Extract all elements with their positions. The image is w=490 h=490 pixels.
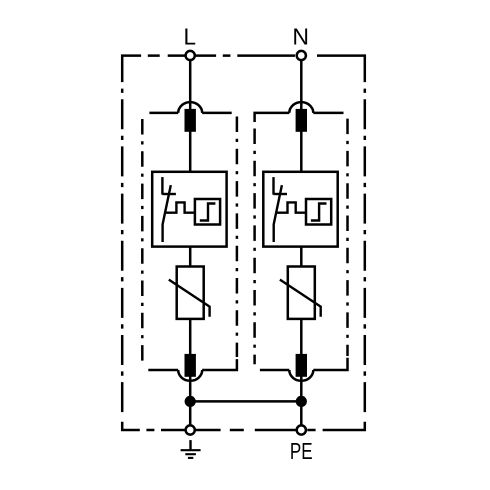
status indicator window (N branch) <box>306 199 331 225</box>
module enclosure (L branch): top edge <box>149 112 231 115</box>
disconnector with status indicator box (L branch) <box>152 172 226 247</box>
device outline: top edge with corner <box>122 56 365 83</box>
module enclosure (N branch): bottom edge <box>260 358 348 370</box>
varistor body (L branch) <box>177 267 204 319</box>
svg-text:N: N <box>292 24 309 50</box>
indicator step symbol (L branch) <box>200 204 216 221</box>
module enclosure (L branch): left edge <box>141 119 144 364</box>
thermal disconnector contact block bottom (N branch) <box>296 354 307 377</box>
wire: L junction to ground terminal <box>189 401 192 430</box>
varistor diagonal stroke (L branch) <box>169 280 210 317</box>
terminal ground (left bottom) <box>186 425 195 434</box>
module enclosure (N branch): right edge <box>346 119 349 356</box>
varistor body (N branch) <box>288 267 315 319</box>
wire: fuse block to PE junction (L branch) <box>189 377 192 402</box>
status indicator window (L branch) <box>195 199 220 225</box>
enclosure bushing arc top (N branch) <box>289 102 313 113</box>
enclosure bushing arc bottom (L branch) <box>178 370 202 381</box>
enclosure bushing arc top (L branch) <box>178 102 202 113</box>
wire: disconnector to varistor (N branch) <box>300 246 303 267</box>
module enclosure (N branch): top edge <box>255 113 344 122</box>
indicator step symbol (N branch) <box>311 204 327 221</box>
terminal N <box>297 51 306 60</box>
wire: varistor to lower fuse block (L branch) <box>189 319 192 355</box>
device outline: left edge <box>121 89 124 413</box>
wire: varistor to lower fuse block (N branch) <box>300 319 303 355</box>
switch blade (N branch) <box>274 185 282 242</box>
varistor diagonal stroke (N branch) <box>280 280 321 317</box>
switch blade (L branch) <box>163 185 171 242</box>
ground symbol <box>181 440 201 458</box>
switch fixed contact lead (L branch) <box>161 177 163 195</box>
terminal PE (right bottom) <box>297 425 306 434</box>
disconnector with status indicator box (N branch) <box>263 172 337 247</box>
thermal disconnector contact block bottom (L branch) <box>185 354 196 377</box>
device outline: right edge <box>364 89 367 413</box>
wire: fuse block to disconnector box (N branch) <box>300 131 303 173</box>
device outline: bottom edge with corners <box>122 422 365 430</box>
junction node (N branch to PE rail) <box>296 396 307 407</box>
switch contact bar (L branch) <box>162 193 176 195</box>
wire: N terminal to disconnector fuse <box>300 60 303 111</box>
thermal disconnector contact block top (L branch) <box>185 109 196 132</box>
wire: PE rail between junctions <box>190 400 301 403</box>
enclosure bushing arc bottom (N branch) <box>289 370 313 381</box>
wire: N junction to PE terminal <box>300 401 303 430</box>
svg-text:L: L <box>183 24 196 50</box>
module enclosure (L branch): right edge <box>236 117 239 358</box>
junction node (L branch to PE rail) <box>185 396 196 407</box>
wire: L terminal to disconnector fuse <box>189 60 192 111</box>
switch contact bar (N branch) <box>274 193 288 195</box>
module enclosure (N branch): left edge <box>253 129 256 365</box>
wire: fuse block to disconnector box (L branch) <box>189 131 192 173</box>
wire: disconnector to varistor (L branch) <box>189 246 192 267</box>
thermal disconnector contact block top (N branch) <box>296 109 307 132</box>
status pulse waveform (L branch) <box>165 202 196 212</box>
wire: fuse block to PE junction (N branch) <box>300 377 303 402</box>
status pulse waveform (N branch) <box>276 202 307 212</box>
switch fixed contact lead (N branch) <box>272 177 274 195</box>
module enclosure (L branch): bottom edge <box>148 359 237 370</box>
svg-text:PE: PE <box>290 438 313 464</box>
terminal L <box>186 51 195 60</box>
